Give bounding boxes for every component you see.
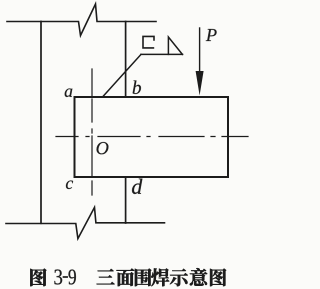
fillet weld symbol (triangle) (168, 37, 182, 54)
horizontal centerline through O (dash-dot) (56, 136, 248, 138)
caption character 示 (170, 269, 188, 286)
label b (133, 80, 141, 93)
weld symbol leader line to point b (103, 54, 141, 96)
force P line (199, 28, 201, 74)
force P arrowhead (196, 71, 204, 96)
label P (206, 29, 217, 41)
vertical centerline through O (dash-dot) (91, 69, 93, 195)
caption character 面 (116, 269, 134, 287)
column right edge upper segment (125, 22, 127, 97)
label d (132, 179, 142, 194)
weld-all-three-sides symbol (C shape) (143, 36, 154, 48)
label a (65, 89, 73, 97)
column left edge (40, 22, 42, 224)
caption character 意 (190, 268, 208, 286)
caption character 三 (97, 269, 115, 284)
caption character 图 (30, 269, 46, 287)
caption figure number 9 (68, 269, 75, 284)
top boundary line with break symbol (7, 4, 156, 36)
caption character 图 (second) (210, 269, 226, 287)
gusset plate outline (75, 97, 229, 177)
caption figure number 3 (54, 269, 62, 284)
bottom boundary line with break symbol (6, 207, 165, 238)
label O (weld group centroid) (97, 142, 109, 154)
caption character 焊 (151, 268, 169, 286)
label c (66, 181, 73, 189)
column right edge lower segment (125, 178, 127, 224)
caption hyphen (64, 276, 68, 278)
caption character 围 (135, 269, 151, 287)
weld symbol reference line (141, 53, 183, 55)
